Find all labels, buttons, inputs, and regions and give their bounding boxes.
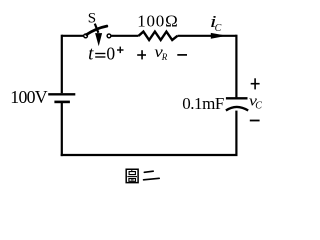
wire left vertical lower bbox=[61, 103, 63, 156]
svg-text:100V: 100V bbox=[10, 87, 47, 107]
battery V1 long plate bbox=[48, 93, 75, 95]
svg-text:0: 0 bbox=[106, 43, 115, 63]
wire resistor to corner bbox=[178, 35, 237, 37]
wire right vertical upper bbox=[235, 35, 237, 98]
svg-text:0.1mF: 0.1mF bbox=[182, 94, 224, 113]
wire top-left horizontal bbox=[62, 35, 84, 37]
label minus of vC bbox=[250, 120, 260, 122]
svg-text:C: C bbox=[255, 101, 262, 112]
wire left vertical upper bbox=[61, 35, 63, 93]
capacitor C curved bottom plate bbox=[226, 107, 248, 111]
switch S: closing-motion arrow shaft bbox=[95, 24, 99, 33]
label + of vC bbox=[251, 78, 260, 89]
label superscript + of t=0 bbox=[117, 47, 124, 54]
capacitor C top plate bbox=[226, 97, 248, 99]
svg-text:t: t bbox=[88, 44, 94, 65]
switch S: left contact circle bbox=[84, 34, 88, 38]
wire right vertical lower bbox=[235, 111, 237, 155]
svg-text:C: C bbox=[215, 23, 222, 34]
wire switch to resistor bbox=[111, 35, 139, 37]
svg-text:100Ω: 100Ω bbox=[137, 12, 178, 31]
battery V1 short plate bbox=[54, 101, 70, 104]
switch S: blade bbox=[87, 26, 107, 34]
svg-text:S: S bbox=[88, 10, 96, 26]
resistor R 100ohm zigzag bbox=[139, 32, 178, 40]
svg-text:R: R bbox=[161, 52, 168, 62]
caption character tu (figure) bbox=[126, 169, 138, 182]
wire bottom horizontal bbox=[61, 154, 238, 156]
label + of vR bbox=[137, 50, 146, 59]
switch S: closing-motion arrowhead bbox=[95, 33, 102, 46]
current arrow iC head bbox=[211, 33, 227, 39]
switch S: right contact circle bbox=[107, 34, 111, 38]
label minus of vR bbox=[177, 54, 187, 56]
caption character er (two) bbox=[144, 171, 160, 180]
